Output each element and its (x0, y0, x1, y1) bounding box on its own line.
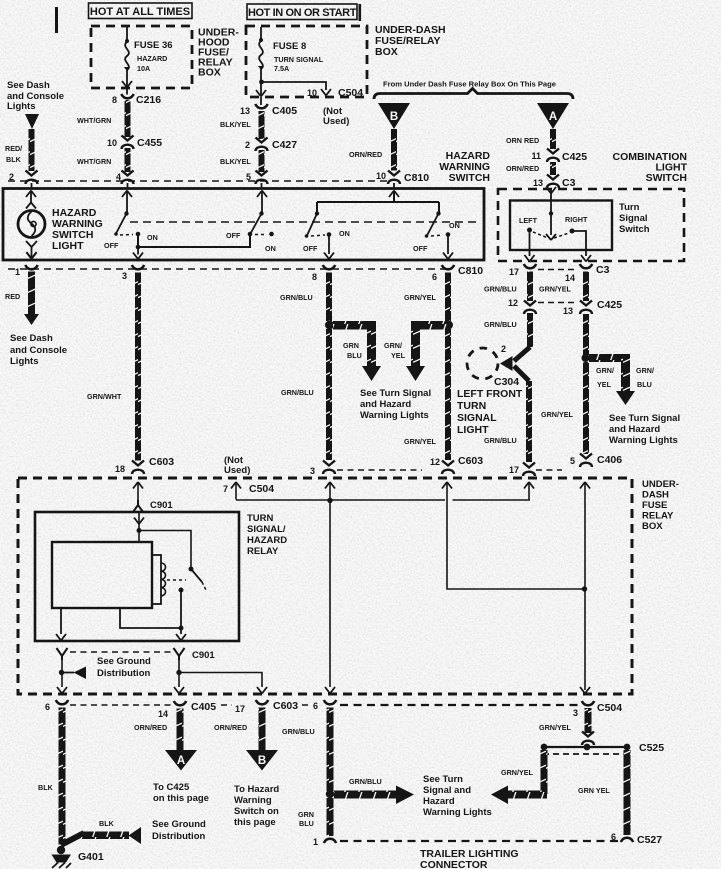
connector C603 pin 18 (132, 461, 144, 475)
svg-text:RED/: RED/ (5, 144, 22, 153)
svg-text:GRN/BLU: GRN/BLU (484, 320, 517, 329)
svg-text:FUSE: FUSE (642, 500, 667, 511)
connector C427 pin 2 (256, 138, 268, 152)
connector pin 17 to under-dash box (523, 463, 535, 477)
svg-text:GRN/YEL: GRN/YEL (539, 723, 572, 732)
connector C810 pin 2 (26, 171, 38, 185)
ground G401 (57, 846, 65, 854)
wire BLK/YEL (259, 150, 265, 172)
combination light switch box (498, 189, 684, 261)
svg-text:BLK: BLK (99, 819, 115, 828)
svg-text:B: B (390, 111, 398, 123)
svg-text:6: 6 (45, 702, 50, 712)
svg-text:C405: C405 (272, 105, 297, 117)
connector C901 (133, 500, 143, 512)
hazard warning switch light lamp (18, 191, 45, 259)
wire BLK (59, 708, 66, 845)
svg-text:FUSE 36: FUSE 36 (134, 40, 173, 51)
svg-text:LIGHT: LIGHT (52, 240, 84, 252)
junction node (326, 790, 334, 798)
branch to C504 pin 10 (not used) (259, 80, 264, 85)
wire ORN/RED (550, 162, 556, 175)
svg-text:DASH: DASH (642, 490, 669, 501)
svg-text:ON: ON (339, 229, 350, 238)
svg-text:C810: C810 (404, 172, 429, 184)
connector row dashed links (337, 469, 562, 471)
svg-text:10: 10 (307, 88, 317, 98)
connector C3 pin 14 (580, 264, 592, 268)
svg-text:Distribution: Distribution (97, 668, 150, 679)
svg-text:ORN RED: ORN RED (506, 136, 539, 145)
svg-text:17: 17 (235, 704, 245, 714)
svg-text:Turn: Turn (619, 202, 640, 213)
wire GRN/BLU lower (327, 798, 334, 836)
hot-in-on-or-start label box (247, 4, 361, 21)
connector C810 pin 3 (132, 265, 144, 269)
svg-text:To C425: To C425 (153, 782, 190, 793)
svg-text:12: 12 (430, 457, 440, 467)
entry arrow wire 3 (325, 482, 335, 489)
wire GRN/YEL continues (445, 329, 451, 460)
svg-text:HOT IN ON OR START: HOT IN ON OR START (248, 7, 357, 19)
arrow GRN/BLU to lights (334, 791, 396, 799)
wire GRN/BLU continues down (526, 381, 532, 462)
svg-text:Lights: Lights (10, 356, 39, 367)
svg-text:BOX: BOX (198, 67, 221, 79)
svg-text:C3: C3 (562, 177, 576, 189)
svg-text:See Turn Signal: See Turn Signal (609, 413, 680, 424)
svg-text:C425: C425 (597, 299, 622, 311)
svg-text:GRN/: GRN/ (596, 366, 614, 375)
svg-text:See Turn Signal: See Turn Signal (360, 388, 431, 399)
branch arrow GRN/YEL (414, 321, 449, 330)
svg-text:UNDER-: UNDER- (642, 479, 679, 490)
triangle A (from under dash box) (537, 103, 569, 129)
svg-text:TURN: TURN (457, 400, 486, 412)
svg-text:GRN: GRN (298, 810, 314, 819)
svg-text:C901: C901 (150, 500, 173, 511)
svg-text:C603: C603 (149, 456, 174, 468)
left front turn signal light (467, 348, 498, 379)
svg-text:ON: ON (147, 233, 158, 242)
connector C810 pin 5 (256, 171, 268, 185)
connector C405 pin 13 (255, 104, 267, 108)
switch poles 3-4 feed bus (317, 191, 439, 214)
svg-text:SWITCH: SWITCH (646, 172, 687, 184)
entry arrow C504 pin 7 (231, 482, 241, 489)
svg-text:C304: C304 (494, 376, 519, 388)
switch linkage dashed line (130, 221, 478, 223)
svg-text:C405: C405 (191, 701, 216, 713)
svg-text:OFF: OFF (226, 231, 241, 240)
svg-text:C504: C504 (597, 702, 622, 714)
wire ORN/RED to hazard switch (391, 129, 397, 171)
connector C527 pin 6 (621, 838, 633, 842)
under-dash fuse/relay box (top) (246, 24, 446, 97)
svg-text:this page: this page (234, 817, 276, 828)
connector C406 pin 5 (580, 454, 592, 468)
connector C525 inline (582, 732, 594, 746)
svg-text:YEL: YEL (391, 351, 406, 360)
connector C810 pin 10 (388, 171, 400, 185)
entry arrow wire 17 (524, 482, 534, 489)
svg-text:13: 13 (240, 106, 250, 116)
svg-text:17: 17 (509, 465, 519, 475)
switch pole 1 (114, 191, 250, 260)
svg-text:SWITCH: SWITCH (449, 172, 490, 184)
wire GRN/YEL (585, 708, 592, 733)
junction node (582, 354, 590, 362)
svg-text:GRN/YEL: GRN/YEL (501, 768, 534, 777)
svg-text:G401: G401 (78, 851, 104, 863)
junction node (444, 321, 453, 330)
hot-at-all-times label box (89, 3, 193, 19)
svg-text:RED: RED (5, 292, 20, 301)
svg-text:WHT/GRN: WHT/GRN (77, 157, 111, 166)
switch pole 3 (305, 211, 334, 259)
svg-text:and Console: and Console (10, 345, 67, 356)
connector C810 pin 6 (442, 265, 454, 269)
svg-text:LEFT FRONT: LEFT FRONT (457, 388, 523, 400)
svg-text:BOX: BOX (642, 521, 663, 532)
wire GRN/YEL pin 6 (445, 273, 451, 322)
svg-text:Used): Used) (224, 465, 250, 476)
svg-text:GRN/: GRN/ (384, 341, 402, 350)
wire RED/BLK (29, 129, 35, 171)
relay output to C603 pin 17 (178, 660, 180, 687)
svg-text:ON: ON (449, 221, 460, 230)
svg-text:2: 2 (245, 140, 250, 150)
svg-text:BLK/YEL: BLK/YEL (220, 157, 251, 166)
connector C810 pin 4 (122, 171, 134, 185)
svg-text:1: 1 (15, 267, 20, 277)
svg-text:A: A (549, 111, 557, 123)
connector C810 bottom row dashed (8, 268, 452, 270)
svg-text:Signal: Signal (619, 213, 648, 224)
relay contact wire down (180, 590, 182, 634)
svg-text:and Hazard: and Hazard (609, 424, 660, 435)
wire BLK/YEL (259, 111, 265, 139)
svg-text:C603: C603 (273, 700, 298, 712)
svg-text:7: 7 (223, 484, 228, 494)
svg-text:GRN/BLU: GRN/BLU (349, 777, 382, 786)
svg-text:A: A (177, 755, 185, 767)
svg-text:To Hazard: To Hazard (234, 784, 279, 795)
svg-text:YEL: YEL (597, 380, 612, 389)
svg-text:OFF: OFF (413, 244, 428, 253)
wire ORN/RED to A (177, 709, 184, 751)
connector C405 pin 14 (174, 701, 186, 705)
turn signal switch common feed (546, 187, 556, 240)
svg-text:C810: C810 (458, 265, 483, 277)
svg-text:17: 17 (509, 267, 519, 277)
bottom connector row dashed (70, 704, 309, 706)
wire GRN/YEL pin 14 (583, 272, 589, 302)
svg-text:6: 6 (432, 272, 437, 282)
svg-text:BOX: BOX (375, 46, 398, 58)
svg-text:CONNECTOR: CONNECTOR (420, 859, 488, 869)
trailer lighting connector box (340, 704, 583, 706)
svg-text:BLU: BLU (347, 351, 362, 360)
switch pole 4 (425, 211, 453, 259)
svg-text:3: 3 (310, 466, 315, 476)
wire GRN/YEL right leg (624, 750, 631, 835)
svg-text:BLK/YEL: BLK/YEL (220, 120, 251, 129)
svg-text:10A: 10A (137, 64, 150, 73)
wire GRN/BLU to left front light (527, 313, 533, 347)
svg-text:1: 1 (313, 837, 318, 847)
brace (374, 89, 573, 100)
svg-text:ORN/RED: ORN/RED (349, 150, 382, 159)
svg-text:C525: C525 (639, 742, 664, 754)
svg-text:GRN/BLU: GRN/BLU (282, 727, 315, 736)
svg-text:ORN/RED: ORN/RED (214, 723, 247, 732)
svg-text:BLK: BLK (6, 155, 22, 164)
connector C425 pin 13 (580, 301, 592, 315)
turn switch dashed blades (533, 232, 569, 238)
svg-text:Warning: Warning (234, 795, 272, 806)
junction node (325, 321, 334, 330)
wire WHT/GRN (125, 148, 131, 172)
connector C425 pin 11 (547, 149, 559, 163)
triangle B (to hazard switch) (246, 750, 278, 771)
svg-text:GRN/YEL: GRN/YEL (404, 437, 437, 446)
svg-text:GRN/: GRN/ (636, 366, 654, 375)
svg-text:on this page: on this page (153, 793, 209, 804)
svg-text:GRN/YEL: GRN/YEL (541, 410, 574, 419)
svg-text:ON: ON (265, 244, 276, 253)
wire GRN/BLU (327, 708, 334, 792)
svg-text:WHT/GRN: WHT/GRN (77, 116, 111, 125)
svg-text:C425: C425 (562, 151, 587, 163)
svg-text:Distribution: Distribution (152, 831, 205, 842)
svg-text:See Dash: See Dash (10, 333, 53, 344)
wire GRN/BLU pin 8 (326, 273, 332, 322)
svg-text:GRN/BLU: GRN/BLU (281, 388, 314, 397)
svg-text:10: 10 (376, 171, 386, 181)
wire WHT/GRN (125, 100, 131, 137)
wire RED arrow to dash lights (28, 272, 35, 315)
svg-text:See Turn: See Turn (423, 774, 463, 785)
svg-text:ORN/RED: ORN/RED (506, 164, 539, 173)
connector C455 pin 10 (122, 136, 134, 150)
svg-text:C603: C603 (458, 455, 483, 467)
svg-text:OFF: OFF (303, 244, 318, 253)
entry arrow wire 5 (580, 482, 590, 489)
svg-text:BLK: BLK (38, 783, 54, 792)
svg-text:See Ground: See Ground (97, 656, 151, 667)
svg-text:GRN: GRN (343, 341, 359, 350)
wire ORN/RED to B (259, 708, 266, 751)
branch arrow GRN/BLU (333, 321, 376, 330)
svg-text:7.5A: 7.5A (274, 64, 289, 73)
relay coil (161, 563, 166, 596)
connector C3 pin 13 (547, 175, 559, 189)
svg-text:See Dash: See Dash (7, 80, 50, 91)
relay left leg (60, 608, 62, 634)
svg-text:C455: C455 (137, 137, 162, 149)
entry arrow wire 12 (442, 482, 452, 489)
svg-text:ORN/RED: ORN/RED (134, 723, 167, 732)
svg-text:13: 13 (533, 178, 543, 188)
svg-text:Switch: Switch (619, 224, 650, 235)
connector C3 pin 17 (524, 264, 536, 268)
svg-text:11: 11 (531, 151, 541, 161)
svg-text:GRN/BLU: GRN/BLU (484, 436, 517, 445)
connector row dashed line C810 (8, 180, 387, 182)
branch arrow to other lights (589, 354, 626, 362)
svg-text:SIGNAL: SIGNAL (457, 412, 497, 424)
ground distribution arrow (61, 833, 84, 845)
fuse F36 HAZARD 10A (122, 27, 132, 95)
svg-text:14: 14 (565, 273, 575, 283)
svg-text:C216: C216 (136, 94, 161, 106)
svg-text:Warning Lights: Warning Lights (609, 435, 678, 446)
connector C504 pin 3 (582, 701, 594, 705)
connector C810 pin 1 (25, 265, 37, 269)
svg-text:GRN YEL: GRN YEL (578, 786, 610, 795)
svg-text:Used): Used) (323, 116, 349, 127)
wire link horizontal (236, 499, 530, 501)
svg-text:2: 2 (501, 344, 506, 354)
svg-text:RELAY: RELAY (642, 511, 674, 522)
svg-text:GRN/WHT: GRN/WHT (87, 392, 122, 401)
svg-text:C3: C3 (596, 264, 610, 276)
relay feed to contact (139, 531, 191, 568)
switch pole 2 (248, 191, 274, 237)
svg-text:BLU: BLU (637, 380, 652, 389)
wire GRN/BLU pin 17 (527, 272, 533, 302)
connector C901 lower pair (57, 648, 68, 660)
svg-text:8: 8 (112, 95, 117, 105)
svg-text:C901: C901 (192, 650, 215, 661)
under-hood fuse/relay box (91, 26, 239, 88)
svg-text:C504: C504 (249, 483, 274, 495)
svg-text:GRN/BLU: GRN/BLU (280, 293, 313, 302)
svg-text:14: 14 (158, 709, 168, 719)
svg-text:Signal and: Signal and (423, 785, 471, 796)
turn switch left contact (527, 228, 532, 233)
wire GRN/BLU continues (326, 329, 332, 460)
svg-text:See Ground: See Ground (152, 819, 206, 830)
svg-text:13: 13 (563, 306, 573, 316)
svg-text:5: 5 (570, 456, 575, 466)
ground distribution branch (61, 660, 63, 687)
registration bar top left (55, 7, 58, 33)
svg-text:6: 6 (611, 832, 616, 842)
triangle A (to C425) (165, 750, 197, 771)
svg-text:From Under Dash Fuse Relay Box: From Under Dash Fuse Relay Box On This P… (383, 80, 556, 89)
svg-text:HAZARD: HAZARD (247, 535, 287, 546)
svg-text:SIGNAL/: SIGNAL/ (247, 524, 286, 535)
svg-text:Warning Lights: Warning Lights (360, 410, 429, 421)
under-dash fuse relay box (lower) (18, 478, 632, 694)
svg-text:C527: C527 (637, 834, 662, 846)
svg-text:GRN/BLU: GRN/BLU (484, 285, 517, 294)
svg-text:GRN/YEL: GRN/YEL (539, 285, 572, 294)
fuse F8 TURN SIGNAL 7.5A (256, 27, 266, 105)
svg-text:2: 2 (9, 172, 14, 182)
svg-text:3: 3 (573, 708, 578, 718)
svg-text:10: 10 (107, 138, 117, 148)
box bottom exit arrows (57, 687, 67, 694)
wire GRN/YEL left leg arrow (541, 750, 548, 794)
wire GRN/YEL pin 13 down (583, 314, 589, 355)
hazard warning switch box (3, 189, 484, 261)
svg-text:Hazard: Hazard (423, 796, 455, 807)
svg-text:18: 18 (115, 464, 125, 474)
svg-text:BLU: BLU (299, 819, 314, 828)
svg-text:FUSE 8: FUSE 8 (273, 41, 306, 52)
svg-text:LEFT: LEFT (519, 216, 538, 225)
svg-text:3: 3 (122, 271, 127, 281)
svg-text:OFF: OFF (104, 241, 119, 250)
svg-text:TURN SIGNAL: TURN SIGNAL (274, 55, 324, 64)
svg-text:6: 6 (313, 701, 318, 711)
relay armature (191, 569, 202, 582)
connector pin 1 trailer (324, 839, 336, 843)
svg-text:HOT AT ALL TIMES: HOT AT ALL TIMES (90, 6, 190, 18)
svg-text:12: 12 (508, 298, 518, 308)
svg-text:Warning Lights: Warning Lights (423, 807, 492, 818)
entry arrow wire 18 (133, 482, 143, 489)
connector C425 pin 12 (524, 301, 536, 315)
relay coil box (52, 542, 152, 608)
connector C216 pin 8 (121, 94, 133, 98)
svg-text:Switch on: Switch on (234, 806, 279, 817)
svg-text:C406: C406 (597, 454, 622, 466)
connector pin 6 (ground) (56, 700, 68, 704)
connector C810 pin 8 (323, 265, 335, 269)
svg-text:and Hazard: and Hazard (360, 399, 411, 410)
svg-text:LIGHT: LIGHT (457, 424, 489, 436)
svg-text:TURN: TURN (247, 513, 274, 524)
svg-text:RIGHT: RIGHT (565, 215, 588, 224)
connector C603 pin 3 (323, 461, 335, 475)
wire GRN/YEL continues (583, 362, 589, 454)
C525 bus (543, 746, 629, 748)
turn signal switch inner box (510, 201, 612, 251)
svg-text:8: 8 (312, 272, 317, 282)
connector C603 pin 12 (442, 461, 454, 475)
svg-text:B: B (258, 755, 266, 767)
triangle B (from under dash box) (378, 103, 410, 129)
relay entry arrow (134, 518, 144, 525)
svg-text:HAZARD: HAZARD (137, 54, 167, 63)
svg-text:C427: C427 (272, 139, 297, 151)
svg-text:Lights: Lights (7, 101, 36, 112)
wire ORN/RED (550, 129, 556, 149)
turn switch right contact (570, 229, 575, 234)
svg-text:C504: C504 (338, 87, 363, 99)
svg-text:GRN/YEL: GRN/YEL (404, 293, 437, 302)
svg-text:RELAY: RELAY (247, 546, 279, 557)
hazard switch pin 1 exit arrow (27, 253, 37, 260)
wire GRN/WHT (135, 273, 141, 461)
connector C603 pin 17 (256, 700, 268, 704)
connector pin 6 trailer (324, 700, 336, 704)
turn signal / hazard relay box (35, 512, 239, 641)
